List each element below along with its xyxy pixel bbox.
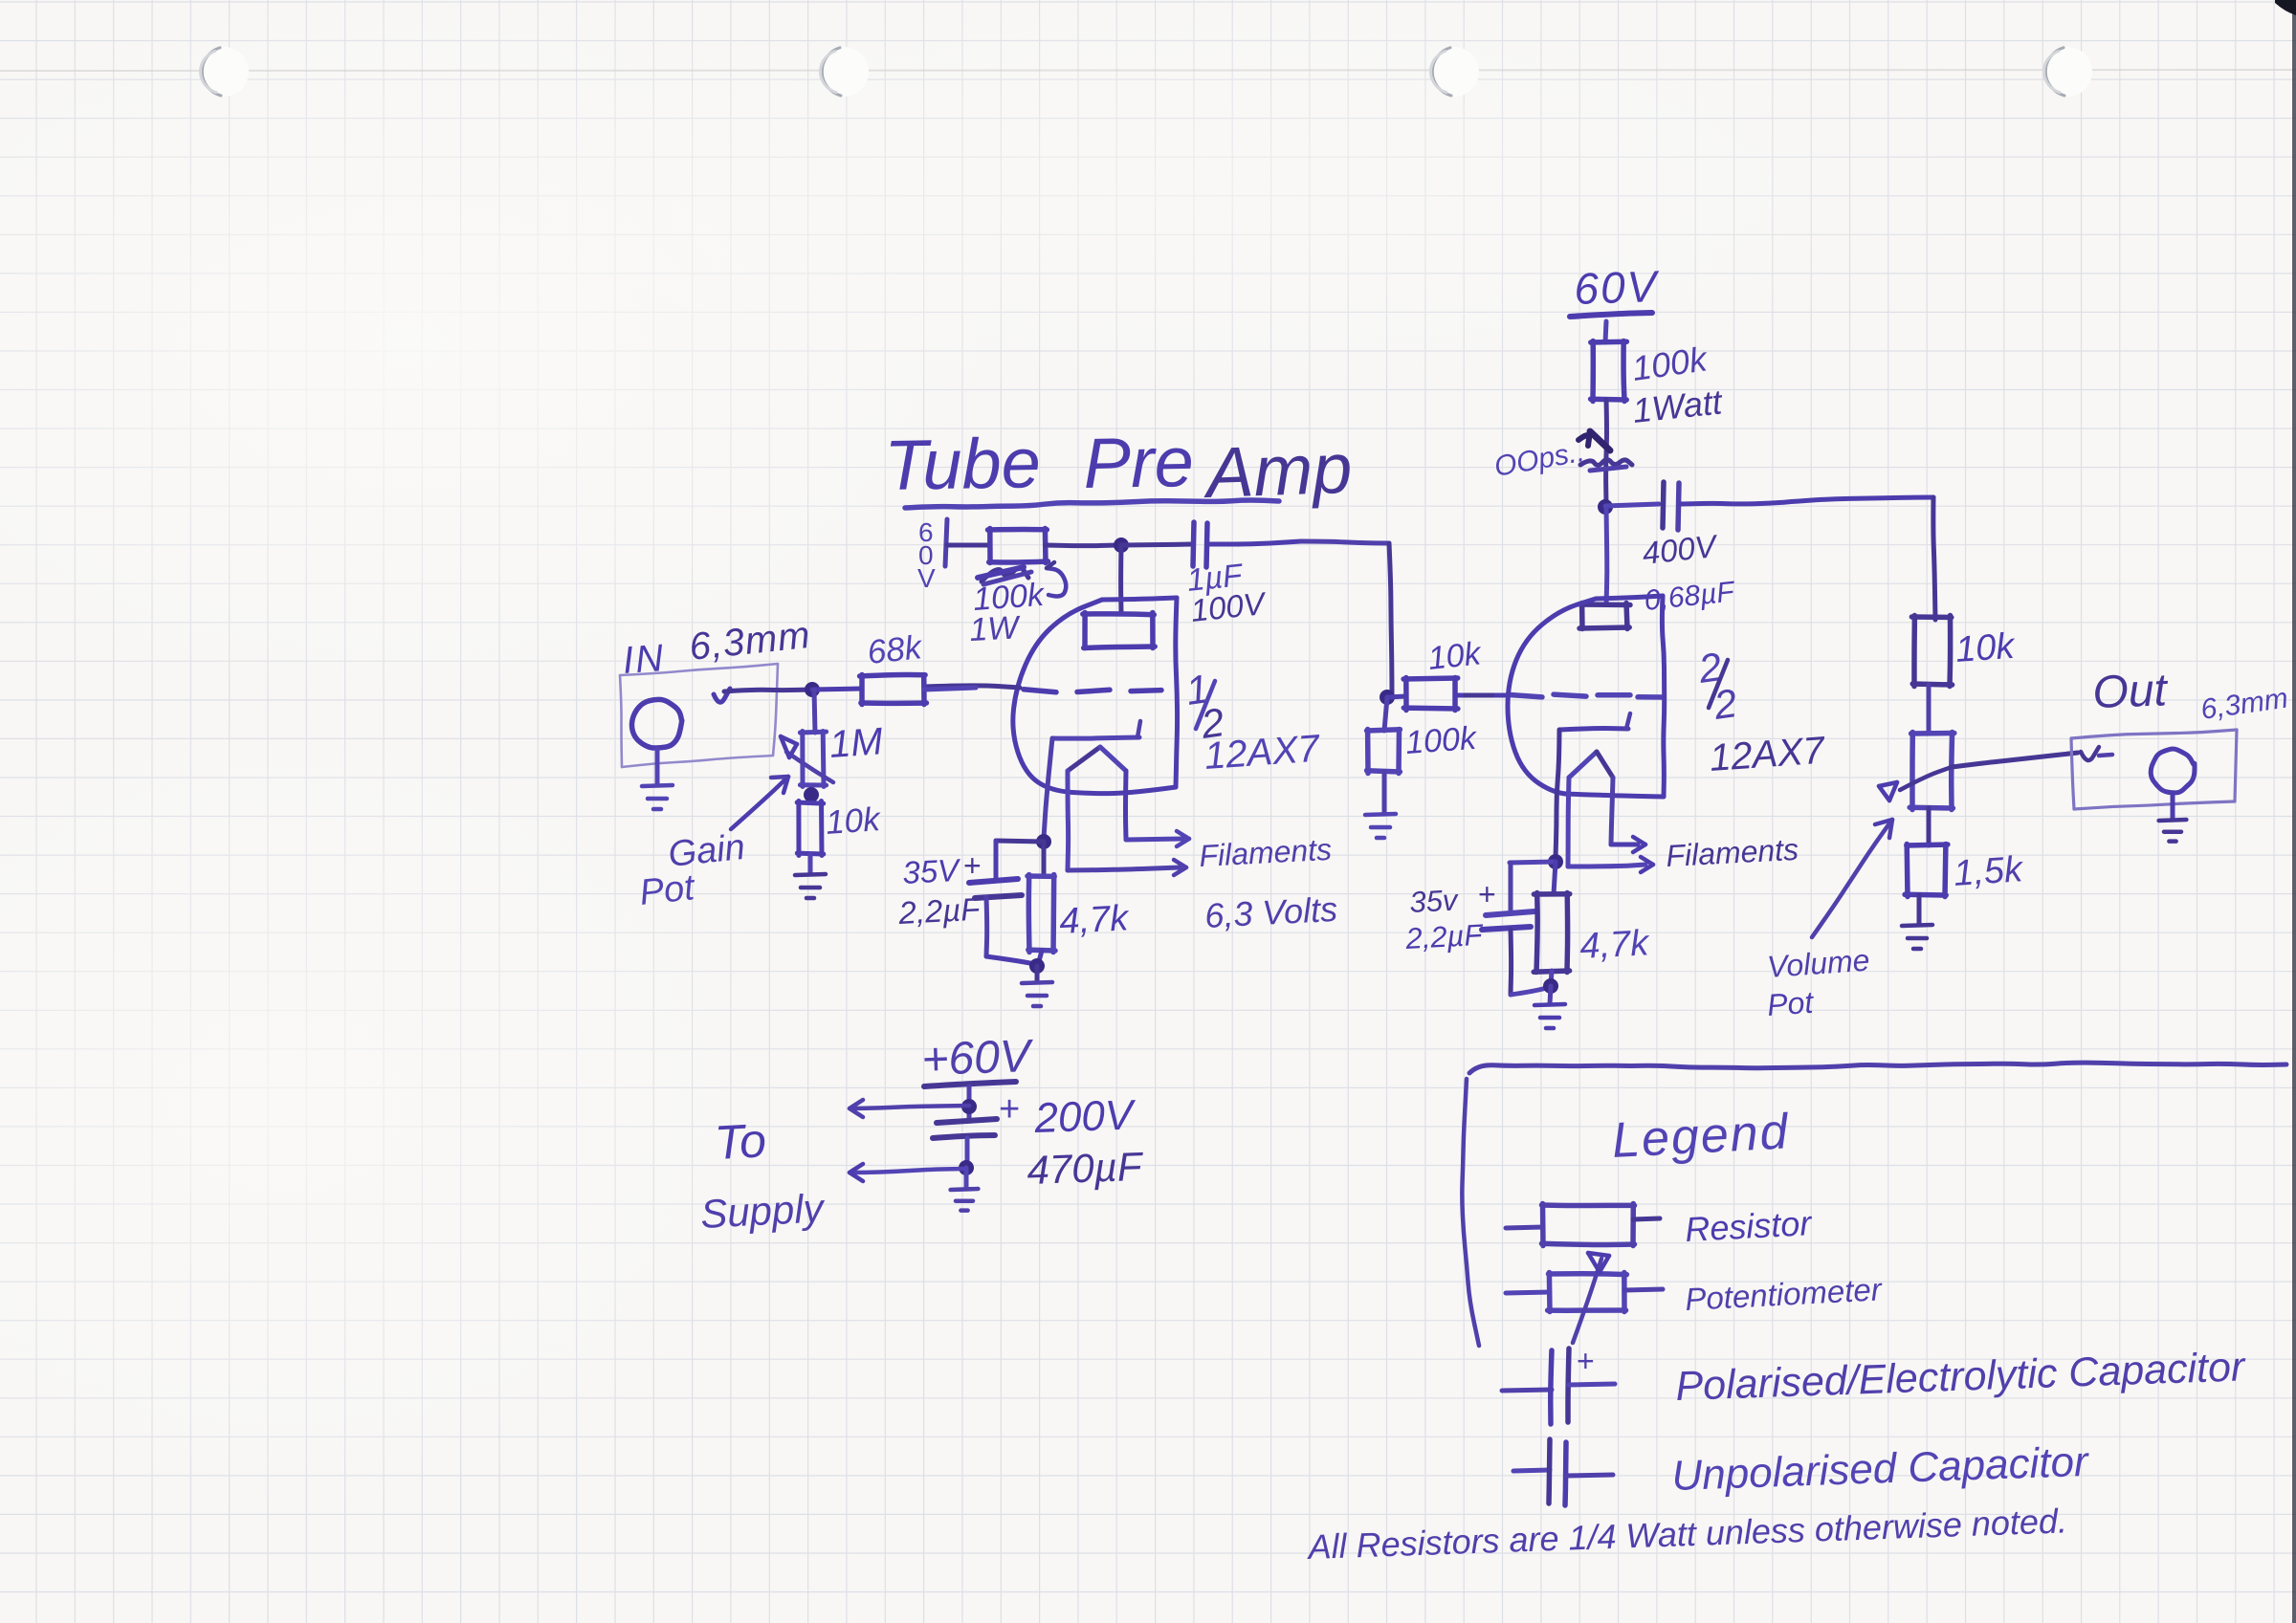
svg-text:12AX7: 12AX7 [1709, 730, 1828, 779]
svg-text:+: + [1478, 877, 1496, 911]
svg-text:+: + [999, 1089, 1020, 1130]
svg-text:100k: 100k [1404, 720, 1479, 761]
svg-text:6,3 Volts: 6,3 Volts [1203, 889, 1338, 935]
svg-text:Pot: Pot [1766, 985, 1816, 1022]
svg-text:Volume: Volume [1766, 943, 1871, 984]
svg-text:V: V [917, 563, 936, 593]
svg-text:+60V: +60V [921, 1031, 1035, 1086]
svg-text:200V: 200V [1033, 1091, 1137, 1142]
svg-text:2,2µF: 2,2µF [1404, 918, 1486, 955]
svg-text:12AX7: 12AX7 [1203, 728, 1323, 778]
svg-text:4,7k: 4,7k [1578, 923, 1651, 967]
svg-text:To: To [714, 1113, 768, 1170]
svg-text:1W: 1W [968, 609, 1022, 648]
svg-text:1,5k: 1,5k [1953, 849, 2026, 894]
svg-text:4,7k: 4,7k [1058, 898, 1131, 942]
svg-text:+: + [963, 848, 982, 883]
svg-text:Supply: Supply [699, 1185, 828, 1237]
svg-text:10k: 10k [825, 801, 883, 842]
svg-text:Pre: Pre [1083, 422, 1195, 503]
svg-text:10k: 10k [1426, 635, 1484, 677]
svg-text:10k: 10k [1954, 626, 2018, 670]
svg-text:35V: 35V [901, 852, 962, 890]
svg-text:+: + [1577, 1344, 1595, 1378]
svg-text:Resistor: Resistor [1684, 1203, 1814, 1249]
svg-text:60V: 60V [1574, 261, 1662, 314]
svg-text:68k: 68k [866, 628, 925, 671]
svg-text:Legend: Legend [1611, 1104, 1791, 1169]
svg-text:Filaments: Filaments [1665, 832, 1799, 873]
svg-text:Out: Out [2092, 665, 2170, 718]
svg-text:470µF: 470µF [1027, 1144, 1145, 1193]
svg-text:Filaments: Filaments [1198, 832, 1332, 873]
svg-text:2,2µF: 2,2µF [896, 890, 982, 931]
svg-text:1M: 1M [828, 720, 885, 766]
svg-text:35v: 35v [1409, 883, 1460, 919]
svg-text:Pot: Pot [638, 867, 698, 913]
svg-text:Tube: Tube [884, 423, 1042, 505]
svg-text:Gain: Gain [667, 827, 747, 875]
